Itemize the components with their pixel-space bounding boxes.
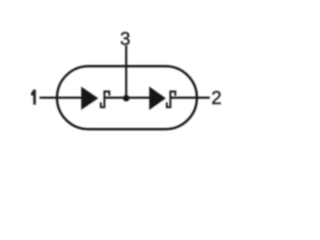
diode D1 anode triangle [82, 88, 97, 108]
wire pin 2 lead [170, 97, 209, 99]
diode D1 stepped cathode bar [101, 92, 110, 108]
wire pin 3 lead [125, 45, 127, 98]
wire pin 1 lead [40, 97, 83, 99]
diode D2 stepped cathode bar [167, 92, 176, 108]
svg-text:3: 3 [120, 28, 130, 49]
diode D2 anode triangle [150, 88, 164, 108]
svg-text:2: 2 [211, 87, 221, 108]
package outline (stadium, SOT23 simplified symbol) [57, 66, 197, 129]
wire center segment (D1 cathode to D2 anode) [104, 97, 150, 99]
node 3 junction dot [123, 95, 130, 102]
pin label 1 [31, 90, 36, 105]
